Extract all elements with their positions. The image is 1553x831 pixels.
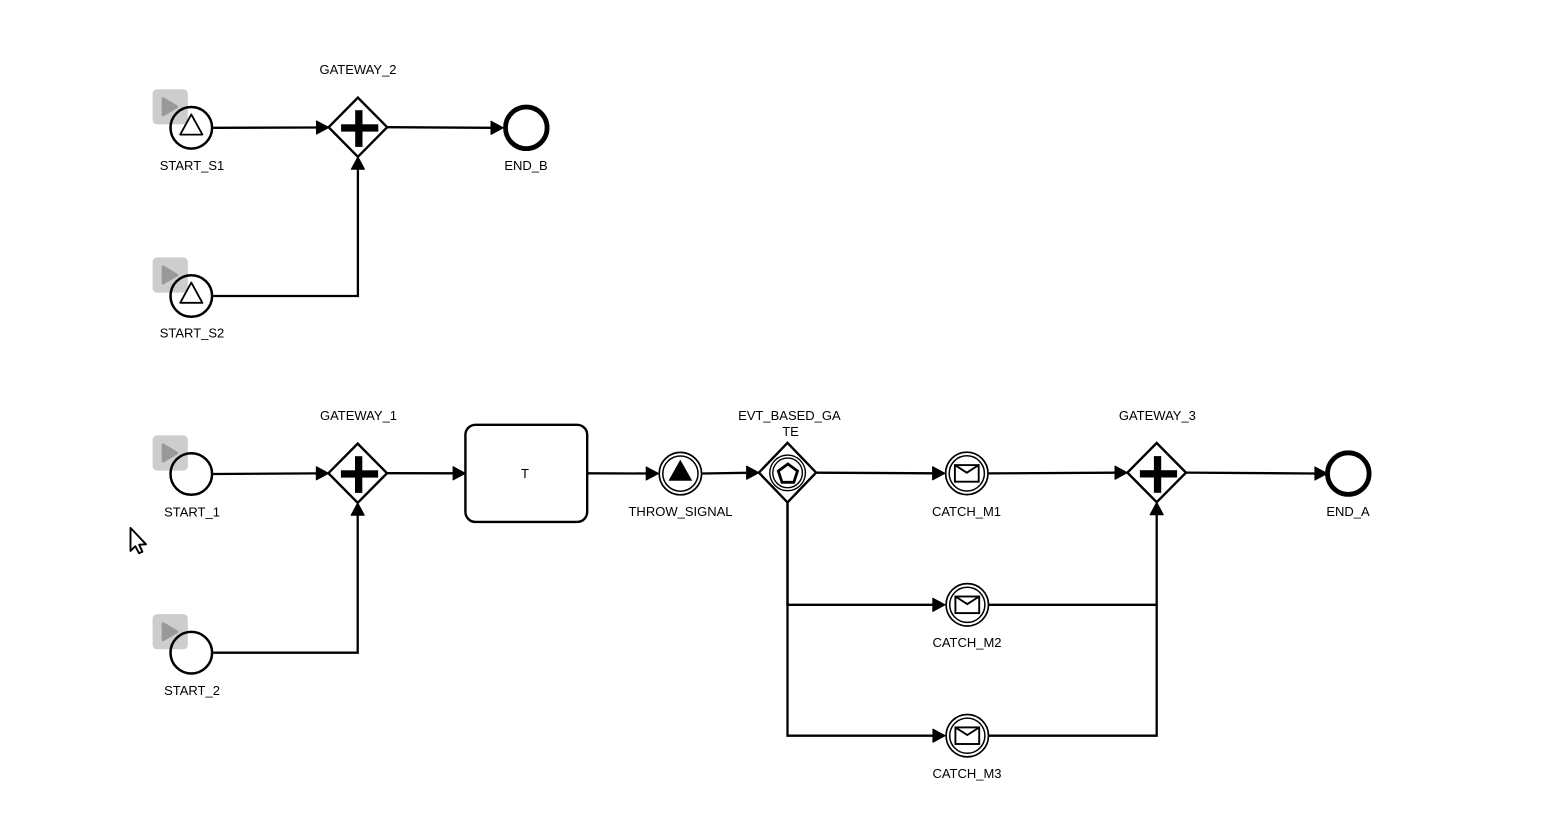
intermediate throw event THROW_SIGNAL: [628, 452, 732, 519]
wire CATCH_M1 to GATEWAY_3: [989, 466, 1128, 479]
svg-text:T: T: [521, 466, 529, 481]
play overlay START_2: [153, 614, 188, 649]
wire CATCH_M3 to GATEWAY_3: [989, 605, 1157, 736]
svg-text:END_A: END_A: [1326, 504, 1370, 519]
start event START_2: [164, 632, 220, 698]
end event END_B: [504, 107, 547, 173]
wire EVT_BASED_GATE to CATCH_M3: [788, 502, 946, 742]
svg-text:TE: TE: [782, 424, 799, 439]
svg-text:GATEWAY_3: GATEWAY_3: [1119, 408, 1196, 423]
task T: [465, 425, 587, 522]
wire EVT_BASED_GATE to CATCH_M2: [788, 502, 946, 611]
wire GATEWAY_3 to END_A: [1186, 467, 1327, 480]
intermediate catch event CATCH_M1 (message): [932, 452, 1001, 519]
wire START_S1 to GATEWAY_2: [213, 121, 329, 134]
end event END_A: [1326, 453, 1370, 519]
svg-text:EVT_BASED_GA: EVT_BASED_GA: [738, 408, 841, 423]
wire EVT_BASED_GATE to CATCH_M1: [816, 467, 945, 480]
svg-text:START_S2: START_S2: [160, 326, 225, 341]
svg-text:CATCH_M2: CATCH_M2: [932, 635, 1001, 650]
wire THROW_SIGNAL to EVT_BASED_GATE: [702, 466, 759, 479]
play overlay START_S1: [153, 89, 188, 124]
svg-text:START_2: START_2: [164, 683, 220, 698]
start event START_S1 (signal): [160, 107, 225, 173]
svg-text:CATCH_M3: CATCH_M3: [932, 766, 1001, 781]
wire START_S2 to GATEWAY_2: [213, 157, 364, 296]
gateway EVT_BASED_GATE (event-based): [738, 408, 841, 503]
play overlay START_S2: [153, 257, 188, 292]
intermediate catch event CATCH_M2 (message): [932, 584, 1001, 651]
play overlay START_1: [153, 435, 188, 470]
svg-text:GATEWAY_2: GATEWAY_2: [319, 62, 396, 77]
svg-text:START_S1: START_S1: [160, 158, 225, 173]
wire START_2 to GATEWAY_1: [213, 503, 364, 653]
start event START_S2 (signal): [160, 275, 225, 340]
wire GATEWAY_2 to END_B: [387, 121, 503, 134]
intermediate catch event CATCH_M3 (message): [932, 715, 1001, 782]
svg-text:CATCH_M1: CATCH_M1: [932, 504, 1001, 519]
svg-text:THROW_SIGNAL: THROW_SIGNAL: [628, 504, 732, 519]
wire GATEWAY_1 to task T: [387, 467, 465, 480]
mouse cursor: [131, 528, 147, 553]
svg-text:GATEWAY_1: GATEWAY_1: [320, 408, 397, 423]
gateway GATEWAY_2 (parallel): [319, 62, 396, 157]
wire task T to THROW_SIGNAL: [587, 467, 658, 480]
gateway GATEWAY_3 (parallel): [1119, 408, 1196, 502]
svg-text:START_1: START_1: [164, 504, 220, 519]
svg-text:END_B: END_B: [504, 158, 547, 173]
wire CATCH_M2 to GATEWAY_3: [989, 502, 1163, 604]
gateway GATEWAY_1 (parallel): [320, 408, 397, 503]
start event START_1: [164, 453, 220, 519]
wire START_1 to GATEWAY_1: [213, 467, 328, 480]
